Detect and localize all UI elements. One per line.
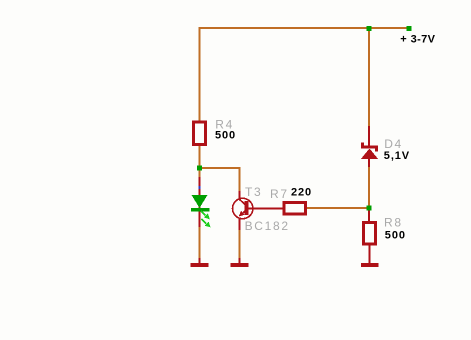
svg-text:500: 500 — [215, 129, 236, 141]
svg-text:R8: R8 — [384, 215, 403, 229]
svg-text:500: 500 — [385, 230, 406, 242]
svg-text:BC182: BC182 — [245, 219, 290, 233]
svg-text:220: 220 — [291, 186, 312, 198]
svg-text:+ 3-7V: + 3-7V — [400, 34, 435, 46]
svg-text:R7: R7 — [270, 187, 289, 201]
svg-text:D4: D4 — [384, 137, 403, 151]
svg-text:T3: T3 — [245, 185, 262, 199]
svg-text:5,1V: 5,1V — [384, 150, 410, 162]
